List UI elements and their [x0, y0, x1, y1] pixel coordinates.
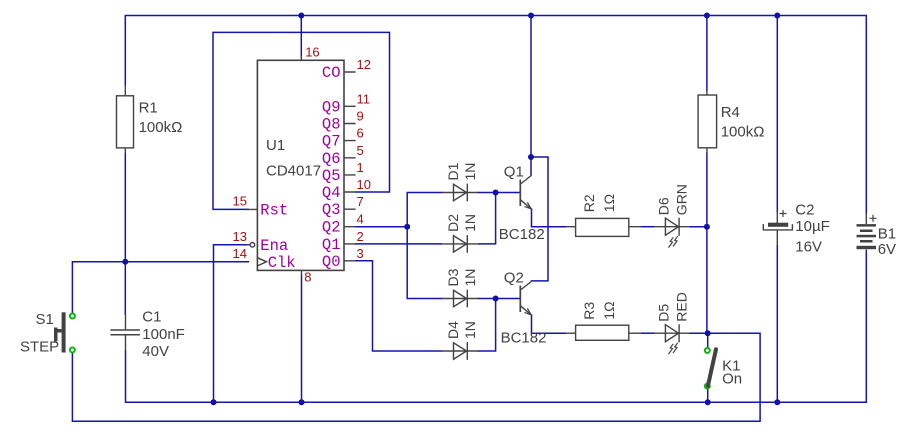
svg-text:16V: 16V — [795, 238, 822, 255]
diode D3 — [442, 290, 479, 308]
svg-text:Q7: Q7 — [322, 133, 341, 151]
junction Q1 base node — [493, 190, 499, 196]
svg-text:B1: B1 — [878, 226, 896, 243]
wire Q1-Q2 collector link — [531, 157, 548, 281]
op-amp U1 CD4017 box — [246, 56, 355, 276]
wire pin16 drop — [300, 16, 302, 57]
wire R2 to D6 — [642, 226, 655, 228]
wire Rst to Q4 — [213, 32, 390, 209]
svg-text:Ena: Ena — [260, 237, 288, 255]
svg-text:Q6: Q6 — [322, 150, 341, 168]
switch K1 — [705, 348, 716, 389]
svg-text:BC182: BC182 — [499, 226, 545, 243]
svg-text:1Ω: 1Ω — [601, 194, 617, 212]
wire Q2 emitter to R3 — [532, 315, 566, 333]
battery B1 — [857, 213, 877, 250]
svg-text:2: 2 — [357, 229, 364, 244]
svg-text:7: 7 — [357, 194, 364, 209]
svg-text:Q3: Q3 — [322, 201, 341, 219]
LED D5 — [654, 324, 690, 354]
wire R4 top — [706, 16, 708, 91]
junction pin16 top rail — [298, 13, 304, 19]
svg-text:RED: RED — [674, 292, 690, 322]
svg-text:11: 11 — [357, 91, 371, 106]
svg-text:12: 12 — [357, 57, 371, 72]
svg-text:R1: R1 — [139, 100, 158, 117]
wire Q0pin to D4 — [356, 261, 442, 351]
svg-text:4: 4 — [357, 212, 364, 227]
junction Q2 base node — [493, 296, 499, 302]
svg-text:U1: U1 — [266, 137, 285, 154]
diode D4 — [442, 342, 479, 360]
junction D5 K1 node — [705, 330, 711, 336]
wire D6 to node — [690, 226, 707, 228]
wire top rail — [125, 16, 866, 214]
svg-text:D5: D5 — [655, 304, 671, 322]
junction C2 ground — [774, 399, 780, 405]
wire Q2pin to D1 D3 — [356, 193, 442, 299]
resistor R1 — [117, 85, 134, 153]
svg-text:C2: C2 — [795, 201, 814, 218]
wire C2 bottom — [776, 245, 778, 402]
wire D3 D4 outputs to Q2 base — [479, 299, 520, 352]
svg-text:D4: D4 — [445, 321, 461, 339]
capacitor C2 — [763, 210, 792, 245]
junction R4 top rail — [704, 13, 710, 19]
wire pin8 to ground — [301, 276, 303, 402]
svg-text:3: 3 — [357, 246, 364, 261]
junction pin4 node — [404, 224, 410, 230]
svg-text:R3: R3 — [581, 302, 597, 320]
svg-text:10: 10 — [357, 177, 371, 192]
diode D2 — [442, 235, 479, 253]
wire R3 to D5 — [642, 332, 655, 334]
svg-text:Rst: Rst — [260, 201, 288, 219]
svg-text:R2: R2 — [581, 194, 597, 212]
wire R4 bottom to D6 node — [706, 153, 708, 333]
svg-text:STEP: STEP — [20, 339, 59, 356]
svg-text:100kΩ: 100kΩ — [139, 119, 183, 136]
svg-text:8: 8 — [304, 269, 311, 284]
svg-text:1: 1 — [357, 160, 364, 175]
svg-text:Q2: Q2 — [504, 269, 524, 286]
junction Q1 net top rail — [528, 13, 534, 19]
junction C2 top rail — [774, 13, 780, 19]
svg-text:10µF: 10µF — [795, 218, 830, 235]
svg-text:On: On — [722, 371, 742, 388]
svg-text:1N: 1N — [462, 269, 478, 287]
transistor Q2 — [520, 282, 531, 315]
svg-text:6V: 6V — [878, 241, 896, 258]
svg-text:Q1: Q1 — [504, 163, 524, 180]
wire Q1 collector net vertical — [530, 16, 532, 176]
svg-text:CO: CO — [322, 64, 341, 82]
svg-text:Q4: Q4 — [322, 184, 341, 202]
svg-text:Q9: Q9 — [322, 98, 341, 116]
wire R1 bottom to C1 — [124, 153, 126, 314]
junction Ena ground — [211, 399, 217, 405]
svg-text:Q5: Q5 — [322, 167, 341, 185]
svg-text:Q2: Q2 — [322, 219, 341, 237]
switch S1 — [54, 312, 75, 352]
wire D1 D2 outputs to Q1 base — [479, 193, 520, 244]
svg-text:100nF: 100nF — [142, 326, 185, 343]
svg-text:1N: 1N — [462, 214, 478, 232]
svg-text:GRN: GRN — [674, 184, 690, 215]
wire S1 bottom rail — [72, 333, 760, 421]
svg-text:16: 16 — [305, 44, 319, 59]
svg-text:D3: D3 — [445, 268, 461, 286]
svg-text:Clk: Clk — [268, 254, 296, 272]
svg-text:9: 9 — [357, 109, 364, 124]
svg-text:D6: D6 — [655, 197, 671, 215]
svg-text:Q0: Q0 — [322, 253, 341, 271]
wire Q1pin to D2 — [356, 243, 442, 245]
svg-text:14: 14 — [233, 246, 247, 261]
svg-text:S1: S1 — [36, 311, 54, 328]
wire S1 to Clk — [72, 262, 248, 314]
svg-text:15: 15 — [233, 193, 247, 208]
svg-text:BC182: BC182 — [501, 330, 547, 347]
svg-text:Q1: Q1 — [322, 236, 341, 254]
svg-text:R4: R4 — [721, 104, 740, 121]
resistor R2 — [566, 218, 642, 236]
junction Q1 collector — [528, 154, 534, 160]
wire K1 top — [707, 333, 709, 347]
wire Ena to ground — [214, 245, 250, 402]
junction pin8 ground — [299, 399, 305, 405]
svg-text:6: 6 — [357, 126, 364, 141]
svg-text:D2: D2 — [445, 214, 461, 232]
svg-text:Q8: Q8 — [322, 116, 341, 134]
svg-text:1N: 1N — [462, 321, 478, 339]
svg-text:C1: C1 — [142, 309, 161, 326]
wire ground rail — [126, 351, 867, 402]
resistor R3 — [566, 325, 642, 340]
resistor R4 — [698, 90, 717, 153]
svg-text:1N: 1N — [462, 163, 478, 181]
svg-text:D1: D1 — [445, 162, 461, 180]
svg-text:5: 5 — [357, 143, 364, 158]
junction R1 C1 Clk node — [122, 259, 128, 265]
LED D6 — [654, 218, 690, 248]
junction D6 R4 node — [704, 224, 710, 230]
svg-text:40V: 40V — [142, 343, 169, 360]
wire D5 to node — [690, 332, 708, 334]
svg-text:1Ω: 1Ω — [601, 301, 617, 319]
wire C2 top — [776, 16, 778, 212]
svg-text:100kΩ: 100kΩ — [721, 124, 765, 141]
diode D1 — [442, 184, 479, 202]
svg-text:13: 13 — [233, 229, 247, 244]
junction K1 ground — [705, 399, 711, 405]
wire Q1 emitter to R2 — [532, 209, 566, 227]
wire B1 bottom — [865, 251, 867, 403]
transistor Q1 — [520, 176, 531, 209]
wire K1 bottom — [707, 389, 709, 403]
capacitor C1 — [110, 314, 139, 351]
svg-text:CD4017: CD4017 — [266, 163, 321, 180]
